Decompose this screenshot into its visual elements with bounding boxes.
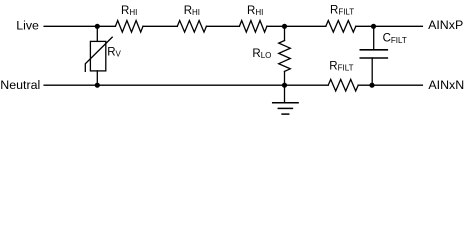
svg-text:RV: RV (107, 47, 121, 59)
svg-text:RLO: RLO (252, 48, 271, 60)
svg-text:RHI: RHI (121, 5, 137, 17)
svg-text:RFILT: RFILT (330, 4, 354, 16)
svg-text:Neutral: Neutral (0, 78, 40, 92)
svg-text:AINxN: AINxN (428, 78, 464, 92)
svg-text:Live: Live (16, 18, 39, 32)
svg-text:AINxP: AINxP (428, 18, 463, 32)
svg-text:RHI: RHI (247, 5, 263, 17)
svg-text:RHI: RHI (184, 5, 200, 17)
svg-text:CFILT: CFILT (383, 33, 407, 45)
svg-text:RFILT: RFILT (329, 60, 353, 72)
